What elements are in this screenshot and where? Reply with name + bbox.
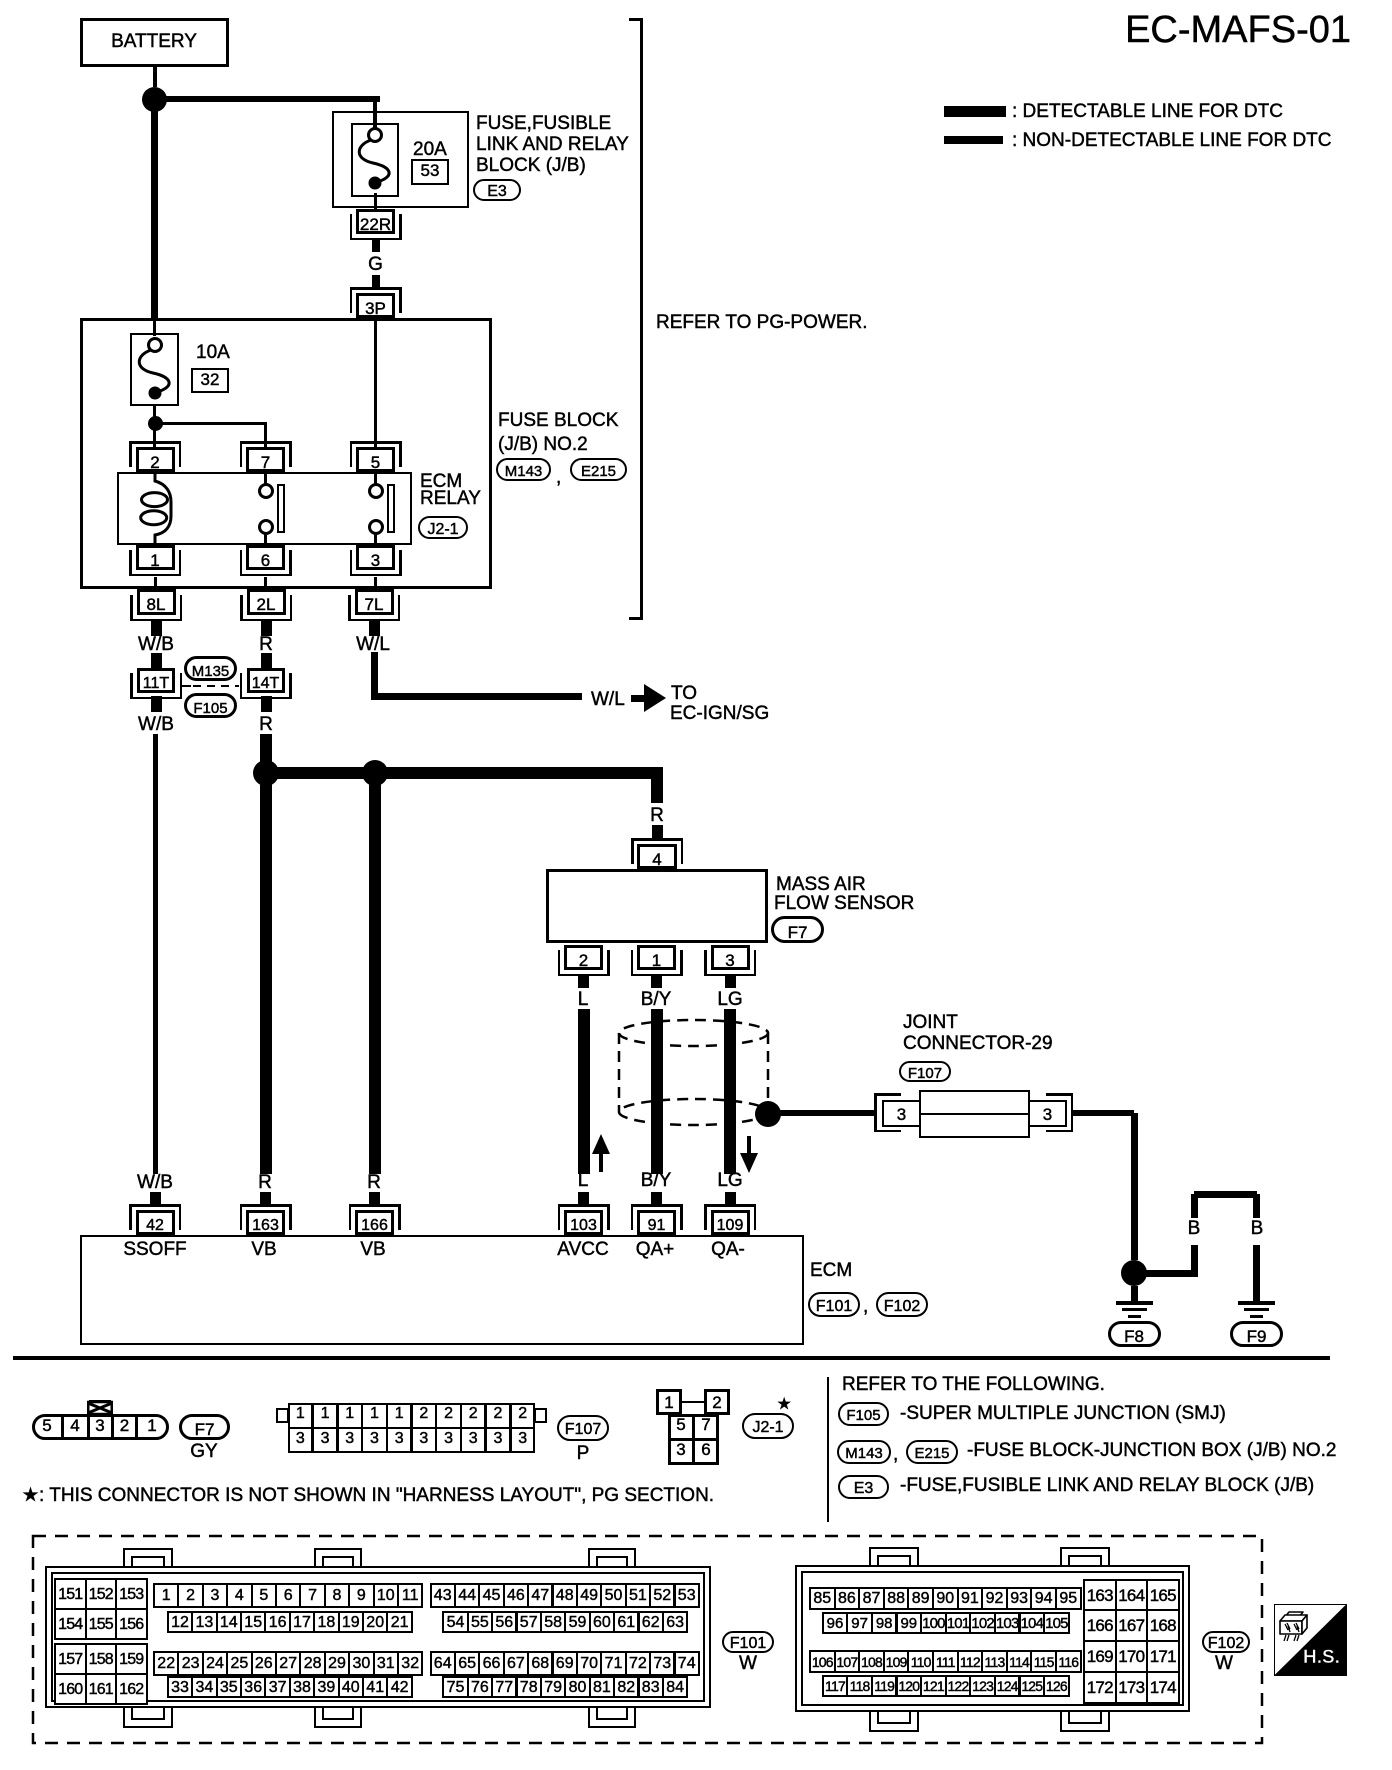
legend non-detectable line sample — [944, 136, 1003, 144]
relay connector pin 1 — [136, 545, 175, 570]
J2-1 star — [777, 1396, 791, 1413]
label MASS AIR FLOW SENSOR — [776, 875, 866, 896]
F101 pin grid 151-156 — [54, 1578, 87, 1610]
wire stub below 8L — [151, 621, 162, 636]
refer to the following text — [842, 1375, 1105, 1396]
wire W/B long run to ECM pin 42 — [153, 734, 158, 1174]
wire B/Y thick run — [651, 1009, 663, 1174]
ref F105 oval — [838, 1402, 889, 1426]
wire into fuse block E3 — [373, 102, 377, 130]
connector ECM pin 103 — [564, 1210, 603, 1235]
title EC-MAFS-01 — [1125, 10, 1351, 51]
wire ground junction to B loop — [1146, 1270, 1194, 1277]
connector ref F107 oval — [899, 1061, 951, 1082]
ref E3 text — [900, 1476, 1314, 1497]
wire R bus horizontal — [266, 767, 658, 779]
connector face F102 shell — [795, 1565, 1190, 1712]
connector ref F7 oval — [771, 916, 824, 943]
F101 pin row 1-11 — [153, 1583, 179, 1608]
arrow down on LG wire — [740, 1136, 758, 1173]
relay coil — [130, 472, 180, 545]
F101 pin row 33-42 — [167, 1676, 193, 1699]
wire R thick run to ECM pin 163 — [260, 734, 272, 1174]
legend non-detectable text — [1012, 131, 1332, 152]
connector ref F7 oval footer — [179, 1414, 230, 1440]
node R bus junction 2 — [362, 760, 388, 786]
connector ref M135 oval — [184, 656, 237, 681]
label R upper — [259, 635, 273, 656]
label W under F101 — [739, 1654, 757, 1675]
F101 pin row 64-74 — [430, 1651, 456, 1676]
connector ref F107 oval footer — [557, 1415, 609, 1441]
F101 pin grid 157-162 — [54, 1643, 87, 1675]
H.S. logo — [1274, 1604, 1347, 1676]
node ground junction — [1121, 1260, 1147, 1286]
F102 tabs — [869, 1547, 919, 1567]
F7 keying bowtie — [87, 1400, 113, 1415]
relay connector pin 5 — [356, 447, 395, 472]
ref M143 oval — [837, 1440, 891, 1464]
star note — [22, 1486, 714, 1507]
labels W/B R R above ECM — [137, 1173, 173, 1194]
fuse 10A symbol — [131, 333, 179, 407]
connector 7L — [355, 589, 394, 615]
node battery junction — [142, 87, 167, 112]
B loop left vertical upper — [1191, 1194, 1198, 1218]
wire into 10A fuse — [153, 318, 156, 336]
wire stub below 7L — [369, 621, 380, 636]
joint connector body — [919, 1090, 1030, 1138]
wire battery stub — [153, 67, 157, 87]
ground F8 stub — [1131, 1286, 1138, 1303]
F101 pin row 22-32 — [153, 1651, 179, 1676]
footer divider vertical — [827, 1377, 830, 1522]
ECM relay box — [117, 472, 412, 545]
fuse number box 32 — [191, 368, 229, 393]
label ECM — [810, 1261, 852, 1282]
connector MAFS pin 3 — [711, 945, 750, 970]
refer-to-pg-power text — [656, 313, 868, 334]
node shield drain junction — [755, 1101, 781, 1127]
wire fuse 20A to 22R — [374, 193, 377, 209]
fuse block E3 outline — [332, 111, 469, 208]
ground F9 symbol — [1238, 1301, 1275, 1305]
connector ref E215 oval — [570, 458, 627, 481]
connector ECM pin 163 — [246, 1210, 285, 1235]
connector ECM pin 109 — [711, 1210, 750, 1235]
wire W/L horizontal to EC-IGN/SG — [371, 693, 582, 700]
label 20A — [413, 140, 447, 161]
F107 right tab — [534, 1408, 547, 1423]
node R bus junction 1 — [253, 760, 279, 786]
connector ref J2-1 oval footer — [742, 1413, 794, 1439]
wire battery down to fuse block no.2 — [151, 110, 158, 318]
F102 pin row 106-116 — [809, 1650, 836, 1673]
wire battery to fuse 20A horizontal — [154, 96, 380, 103]
mass air flow sensor box — [546, 869, 768, 943]
wire stub below 11T — [151, 696, 162, 712]
label R at MAFS — [650, 806, 664, 827]
wire L thick run — [578, 1009, 590, 1174]
node fuse output junction — [148, 416, 163, 431]
F102 pin row 96-105 — [822, 1612, 849, 1635]
F102 pin row 117-126 — [822, 1675, 849, 1698]
connector 3P — [356, 293, 395, 318]
wire 22R to 3P lower stub — [372, 275, 380, 287]
relay coil-side connector pin 2 — [136, 447, 175, 472]
ground F8 symbol — [1116, 1301, 1153, 1305]
labels L B/Y LG below MAFS — [578, 990, 589, 1011]
ref fuse block text — [967, 1441, 1336, 1462]
legend detectable line sample — [944, 106, 1006, 117]
shield cylinder around B/Y and LG — [615, 1016, 775, 1131]
F101 pin row 12-21 — [167, 1611, 193, 1634]
connector ref F101 oval — [808, 1292, 860, 1317]
joint connector left pin 3 box — [882, 1100, 921, 1127]
wires relay pins to block edge — [154, 577, 157, 589]
fuse 20A rect — [351, 123, 399, 197]
arrow to EC-IGN/SG — [631, 695, 645, 702]
relay connector pin 3 — [356, 545, 395, 570]
connector ref F105 oval — [184, 693, 237, 718]
connector MAFS pin 2 — [564, 945, 603, 970]
label GY — [190, 1442, 217, 1463]
connector ref F102 oval footer — [1202, 1631, 1250, 1653]
relay connector pin 6 — [246, 545, 285, 570]
wire shield drain to joint connector — [780, 1110, 876, 1116]
ref comma — [893, 1445, 898, 1466]
labels B B — [1188, 1219, 1201, 1240]
label R lower — [259, 715, 273, 736]
dashed harness box — [31, 1534, 1265, 1746]
comma between F101 F102 — [863, 1297, 868, 1318]
label W under F102 — [1215, 1654, 1233, 1675]
label JOINT CONNECTOR-29 — [903, 1013, 958, 1034]
wire stub below 2L — [261, 621, 272, 636]
connector ref F101 oval footer — [722, 1631, 774, 1653]
fuse number box 53 — [411, 159, 449, 185]
joint connector right pin 3 box — [1028, 1100, 1067, 1127]
connector ECM pin 91 — [637, 1210, 676, 1235]
wire stubs below MAFS pins — [578, 976, 589, 988]
label W/B lower — [138, 715, 174, 736]
connector 8L — [137, 589, 176, 615]
connector 2L — [247, 589, 286, 615]
connector face F7 pill — [32, 1414, 169, 1440]
wire stub above 11T — [151, 653, 162, 668]
label G wire color — [368, 255, 383, 276]
wire stub above MAFS pin 4 — [652, 825, 663, 838]
wire 3P into fuse block down to pin 5 — [374, 321, 377, 447]
wire stubs into ECM pins — [150, 1192, 161, 1206]
connector ref E3 oval — [473, 179, 521, 201]
connector ref J2-1 oval — [418, 516, 468, 539]
connector ECM pin 42 — [136, 1210, 175, 1235]
connector 22R — [356, 209, 395, 234]
label W/L at arrow — [591, 690, 625, 711]
fuse 20A symbol — [351, 123, 399, 197]
label ECM RELAY — [420, 472, 462, 493]
refer-to-pg-power bracket — [640, 18, 643, 620]
B loop right vertical upper — [1253, 1194, 1260, 1218]
relay connector pin 7 — [246, 447, 285, 472]
joint connector right bracket — [1071, 1093, 1074, 1132]
wire W/L down — [371, 652, 379, 700]
labels L B/Y LG above ECM — [578, 1171, 589, 1192]
wire 22R to 3P upper stub — [372, 240, 380, 252]
ECM box — [80, 1235, 804, 1345]
battery B1 — [80, 18, 229, 67]
F102 pin row 85-95 — [809, 1587, 836, 1610]
connector 11T SMJ — [137, 668, 175, 694]
F101 pin row 43-53 — [430, 1583, 456, 1608]
fuse block no.2 outline — [80, 318, 492, 589]
B loop right vertical lower — [1253, 1245, 1260, 1303]
connector ref M143 oval — [496, 458, 551, 481]
F101 tabs — [123, 1548, 173, 1568]
wire junction to relay pin2 — [153, 429, 156, 447]
legend detectable text — [1012, 102, 1283, 123]
ground ref F8 oval — [1108, 1321, 1161, 1347]
B loop left vertical lower — [1191, 1245, 1198, 1277]
wire junction branch horizontal — [155, 422, 267, 425]
connector ECM pin 166 — [355, 1210, 394, 1235]
F101 pin row 54-63 — [442, 1611, 468, 1634]
B loop top bar — [1194, 1191, 1257, 1198]
label W/L — [356, 635, 390, 656]
label TO EC-IGN/SG — [671, 684, 697, 705]
connector face J2-1 — [656, 1389, 682, 1415]
relay contact pin5 circles and bar — [368, 483, 384, 499]
label P — [577, 1444, 590, 1465]
F102 pin grid 163-174 — [1083, 1579, 1117, 1612]
connector face F107 grid — [288, 1403, 535, 1453]
ref E215 oval — [906, 1440, 958, 1464]
wire 10A to junction — [153, 406, 156, 417]
connector 14T SMJ — [247, 668, 285, 694]
label FUSE BLOCK (J/B) NO.2 — [498, 411, 618, 432]
SMJ boundary dashed line — [193, 685, 239, 688]
wire R bus corner down to MAFS — [651, 767, 664, 803]
wire stub below 14T — [261, 696, 272, 712]
comma between M143 E215 — [556, 468, 561, 489]
fuse 10A rect — [130, 333, 179, 406]
relay contact pin7 circles and bar — [258, 483, 274, 499]
connector ref F102 oval — [876, 1292, 928, 1317]
F101 pin row 75-84 — [442, 1676, 468, 1699]
ref F105 text — [900, 1404, 1226, 1425]
F107 left tab — [276, 1408, 289, 1423]
wire branch down to relay pin7 — [264, 422, 267, 448]
separator line — [13, 1356, 1330, 1360]
label 10A — [196, 343, 230, 364]
wire R down to ECM pin 166 — [369, 773, 381, 1174]
wire joint connector to ground horizontal — [1072, 1110, 1134, 1116]
connector MAFS pin 1 — [637, 945, 676, 970]
relay internal wires — [264, 472, 267, 484]
arrow up on L wire — [592, 1134, 610, 1172]
wire LG thick run — [724, 1009, 736, 1174]
wire joint connector to ground vertical — [1131, 1113, 1138, 1260]
connector face F101 shell — [45, 1566, 711, 1708]
label W/B upper — [138, 635, 174, 656]
SMJ boundary tick left — [181, 685, 191, 688]
connector MAFS pin 4 — [637, 844, 677, 869]
ref E3 oval — [838, 1475, 889, 1499]
ECM pin name labels — [123, 1240, 186, 1261]
ground ref F9 oval — [1230, 1321, 1283, 1347]
joint connector left bracket — [874, 1093, 877, 1132]
wire stub above 14T — [261, 653, 272, 668]
label FUSE,FUSIBLE LINK AND RELAY BLOCK (J/B) — [476, 114, 611, 135]
